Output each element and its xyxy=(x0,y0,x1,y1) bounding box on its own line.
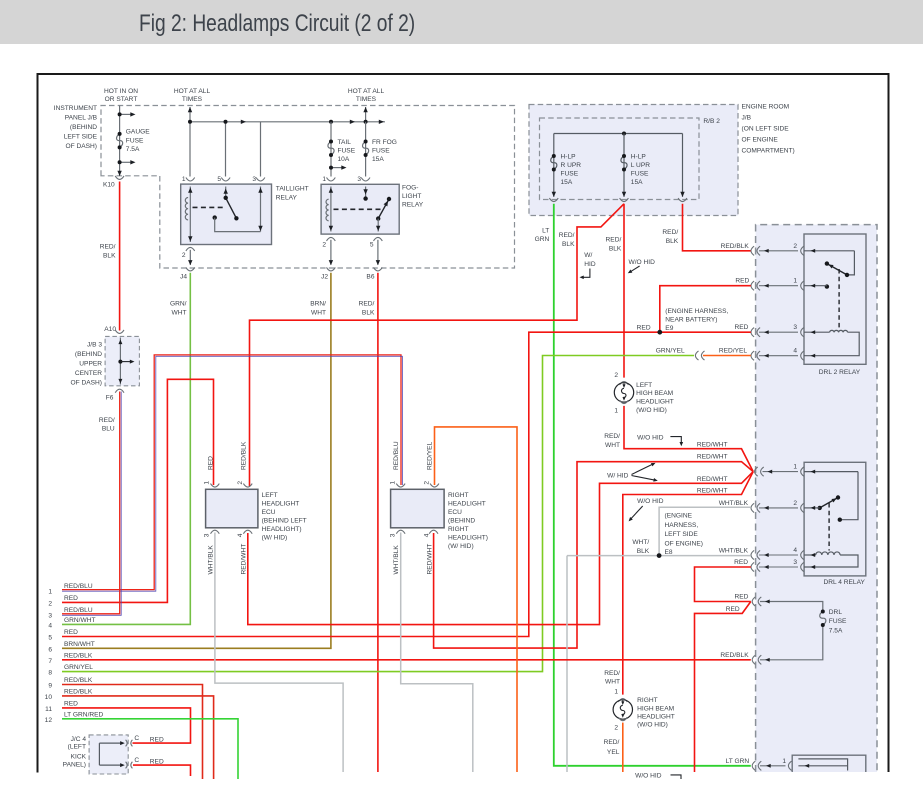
taillight relay pin 2 exit xyxy=(186,247,195,251)
wire WHT/BLK E8 row to DRL4 pin4 xyxy=(567,555,751,557)
svg-text:(W/ HID): (W/ HID) xyxy=(448,543,474,550)
connector RED to DRL fuse xyxy=(752,597,755,606)
left headlight ECU box xyxy=(206,489,258,528)
svg-text:LT: LT xyxy=(542,228,549,235)
svg-text:HEADLIGHT): HEADLIGHT) xyxy=(448,535,488,542)
svg-text:C: C xyxy=(134,757,139,764)
svg-text:LEFT SIDE: LEFT SIDE xyxy=(64,134,98,141)
svg-text:RED/: RED/ xyxy=(99,417,115,424)
svg-text:BLK: BLK xyxy=(103,253,116,260)
svg-text:H-LP: H-LP xyxy=(561,154,577,161)
svg-text:(W/ HID): (W/ HID) xyxy=(262,535,288,542)
svg-text:RED/BLK: RED/BLK xyxy=(241,441,248,470)
svg-text:RED: RED xyxy=(64,595,78,602)
svg-text:RED/BLU: RED/BLU xyxy=(393,441,400,470)
wire RED/BLK W/HID branch xyxy=(250,204,625,486)
wire RED/YEL below right lamp xyxy=(622,723,624,772)
svg-text:10A: 10A xyxy=(338,156,350,163)
fuse FR FOG FUSE 15A xyxy=(363,142,369,156)
DRL4 mech link dashed xyxy=(828,503,830,551)
svg-text:1: 1 xyxy=(322,176,326,183)
svg-text:BLK: BLK xyxy=(637,548,650,555)
lamp LEFT HIGH BEAM HEADLIGHT xyxy=(614,372,674,415)
svg-text:RED: RED xyxy=(64,700,78,707)
svg-text:RED: RED xyxy=(734,594,748,601)
svg-text:BLK: BLK xyxy=(609,246,622,253)
fuse H-LP L UPR FUSE 15A xyxy=(621,134,627,197)
svg-text:BRN/WHT: BRN/WHT xyxy=(64,641,95,648)
svg-text:WHT: WHT xyxy=(311,310,326,317)
svg-text:RED/WHT: RED/WHT xyxy=(697,454,728,461)
svg-text:HOT IN ON: HOT IN ON xyxy=(104,88,138,95)
svg-text:RELAY: RELAY xyxy=(402,202,424,209)
connector GRN/YEL to RED/YEL xyxy=(695,351,698,360)
gauge fuse feed wire xyxy=(120,106,131,177)
instrument panel J/B dashed box xyxy=(101,106,515,269)
svg-text:3: 3 xyxy=(252,176,256,183)
svg-text:RED/WHT: RED/WHT xyxy=(697,487,728,494)
taillight relay pin connectors xyxy=(186,178,195,182)
DRL2 pin 4 connectors xyxy=(751,348,804,361)
wire RED row2 to left ECU pin1 xyxy=(62,379,214,602)
DRL2 pin 1 connectors xyxy=(751,278,827,291)
connector B6 xyxy=(374,267,383,271)
svg-text:RELAY: RELAY xyxy=(276,195,298,202)
bottom relay pin1 xyxy=(760,765,786,767)
taillight relay mech link xyxy=(193,206,225,208)
svg-text:BLK: BLK xyxy=(666,238,679,245)
wire WHT/BLK left ECU pin3 xyxy=(215,533,343,773)
svg-text:2: 2 xyxy=(237,481,244,485)
DRL4 coil pins 4-3 xyxy=(804,552,858,567)
svg-text:KICK: KICK xyxy=(71,754,87,761)
svg-text:W/ HID: W/ HID xyxy=(607,473,628,480)
svg-text:FUSE: FUSE xyxy=(338,148,356,155)
wire RED/YEL right ECU pin2 xyxy=(435,427,518,772)
svg-text:HARNESS,: HARNESS, xyxy=(665,522,699,529)
svg-text:5: 5 xyxy=(217,176,221,183)
wire RED/BLU row1 to right ECU pin1 xyxy=(62,355,402,591)
wire RED/WHT left lamp to DRL4 pin1 line1 xyxy=(624,406,753,472)
svg-text:2: 2 xyxy=(614,372,618,379)
svg-text:FUSE: FUSE xyxy=(126,138,144,145)
svg-text:GRN/WHT: GRN/WHT xyxy=(64,617,96,624)
svg-text:8: 8 xyxy=(48,670,52,677)
diagram border frame xyxy=(38,74,889,773)
svg-text:LEFT SIDE: LEFT SIDE xyxy=(665,531,699,538)
svg-text:1: 1 xyxy=(782,758,786,765)
wire RED DRL2 pin1 to E9 xyxy=(660,286,751,333)
svg-text:WHT: WHT xyxy=(605,679,620,686)
wire LT GRN long vertical xyxy=(554,204,751,766)
svg-text:RED/BLU: RED/BLU xyxy=(64,607,93,614)
svg-text:TAIL: TAIL xyxy=(338,139,352,146)
svg-text:RED: RED xyxy=(726,606,740,613)
svg-text:W/O HID: W/O HID xyxy=(637,498,664,505)
svg-text:3: 3 xyxy=(48,613,52,620)
taillight relay switch xyxy=(225,187,227,198)
fog relay pin3 internal xyxy=(365,187,367,199)
DRL2 switch internal xyxy=(847,251,854,275)
svg-text:RED: RED xyxy=(734,559,748,566)
svg-text:(W/O HID): (W/O HID) xyxy=(636,407,667,414)
svg-text:TIMES: TIMES xyxy=(356,96,377,103)
svg-text:HID: HID xyxy=(584,261,596,268)
svg-text:OR START: OR START xyxy=(105,96,138,103)
svg-text:LEFT: LEFT xyxy=(636,382,652,389)
svg-text:RIGHT: RIGHT xyxy=(448,526,469,533)
svg-text:BLU: BLU xyxy=(102,426,115,433)
wire RED row5 riser to E9 row xyxy=(62,332,751,636)
wire WHT/BLK right ECU pin3 xyxy=(401,533,473,773)
svg-text:J/B: J/B xyxy=(742,115,752,122)
svg-text:HOT AT ALL: HOT AT ALL xyxy=(348,88,385,95)
svg-text:J2: J2 xyxy=(321,274,328,281)
connector J4 xyxy=(186,267,195,271)
svg-text:BLK: BLK xyxy=(362,310,375,317)
J/B 3 internal circuit xyxy=(119,338,121,385)
svg-text:(W/O HID): (W/O HID) xyxy=(637,721,668,728)
svg-text:FOG-: FOG- xyxy=(402,185,418,192)
svg-text:HEADLIGHT: HEADLIGHT xyxy=(262,501,300,508)
svg-text:GRN/YEL: GRN/YEL xyxy=(64,664,93,671)
svg-text:E8: E8 xyxy=(665,549,673,556)
svg-text:OF ENGINE: OF ENGINE xyxy=(742,137,779,144)
svg-text:1: 1 xyxy=(48,588,52,595)
DRL2 mech link dashed xyxy=(838,269,840,330)
svg-text:LEFT: LEFT xyxy=(262,492,278,499)
connector RED/BLK row7 xyxy=(752,655,755,664)
svg-text:BRN/: BRN/ xyxy=(310,301,326,308)
wire RED/YEL to DRL2 pin4 xyxy=(703,355,751,357)
node E9 xyxy=(657,330,662,335)
fog relay pins bottom exits xyxy=(327,237,336,241)
J/C 4 internal bus xyxy=(99,743,121,765)
R/B2 exit connectors xyxy=(549,198,558,202)
svg-text:RED/BLU: RED/BLU xyxy=(64,583,93,590)
svg-text:(ENGINE HARNESS,: (ENGINE HARNESS, xyxy=(665,308,728,315)
svg-text:YEL: YEL xyxy=(607,749,620,756)
gauge fuse symbol GAUGE FUSE 7.5A xyxy=(117,134,123,148)
svg-text:GAUGE: GAUGE xyxy=(126,129,150,136)
DRL 4 relay box xyxy=(804,462,866,576)
svg-text:OF DASH): OF DASH) xyxy=(70,380,102,387)
header bar xyxy=(0,0,923,44)
svg-text:WHT/BLK: WHT/BLK xyxy=(719,548,749,555)
wire RED/BLK W/O HID branch to left high beam xyxy=(623,204,625,386)
svg-text:RED/: RED/ xyxy=(604,739,620,746)
svg-text:2: 2 xyxy=(614,725,618,732)
svg-text:TAILLIGHT: TAILLIGHT xyxy=(276,186,309,193)
svg-text:RED: RED xyxy=(64,629,78,636)
svg-text:(LEFT: (LEFT xyxy=(68,744,86,751)
svg-text:J/B 3: J/B 3 xyxy=(87,342,102,349)
svg-text:1: 1 xyxy=(614,408,618,415)
svg-text:HEADLIGHT: HEADLIGHT xyxy=(636,399,674,406)
svg-text:11: 11 xyxy=(45,706,52,713)
DRL4 pin 2 connectors xyxy=(751,500,820,513)
svg-text:K10: K10 xyxy=(103,182,115,189)
svg-text:1: 1 xyxy=(614,688,618,695)
svg-text:(BEHIND: (BEHIND xyxy=(75,351,102,358)
svg-text:HOT AT ALL: HOT AT ALL xyxy=(174,88,211,95)
fuse TAIL FUSE 10A xyxy=(328,122,342,177)
svg-text:DRL 2 RELAY: DRL 2 RELAY xyxy=(819,369,861,376)
svg-text:FUSE: FUSE xyxy=(561,171,579,178)
svg-text:LIGHT: LIGHT xyxy=(402,193,421,200)
svg-text:NEAR BATTERY): NEAR BATTERY) xyxy=(665,317,717,324)
svg-text:5: 5 xyxy=(370,242,374,249)
svg-text:7: 7 xyxy=(48,658,52,665)
taillight relay coil pin1 xyxy=(185,187,190,243)
wire RED DRL4 pin3 U-link xyxy=(695,567,751,602)
DRL2 pin 2 connectors xyxy=(751,243,854,256)
svg-text:RED: RED xyxy=(734,324,748,331)
svg-text:ECU: ECU xyxy=(262,509,276,516)
svg-text:RED/BLK: RED/BLK xyxy=(721,243,750,250)
wire BRN/WHT J2 riser xyxy=(62,273,331,649)
svg-text:RED/: RED/ xyxy=(606,237,622,244)
wire RED/BLU F6 to row3 xyxy=(62,392,121,616)
svg-text:1: 1 xyxy=(793,464,797,471)
svg-text:A10: A10 xyxy=(104,326,116,333)
svg-text:ECU: ECU xyxy=(448,509,462,516)
taillight relay pin3 internal xyxy=(260,187,262,232)
svg-text:LT GRN: LT GRN xyxy=(726,758,750,765)
wire GRN/YEL row8 riser xyxy=(62,356,694,672)
svg-text:(BEHIND LEFT: (BEHIND LEFT xyxy=(262,518,307,525)
wire RED/WHT line4 to right lamp xyxy=(623,472,753,695)
fog light relay box xyxy=(321,184,399,234)
svg-text:1: 1 xyxy=(390,481,397,485)
R/B 2 dashed box xyxy=(540,118,700,200)
wire RED/WHT line3 from left ECU pin4 xyxy=(248,472,753,625)
svg-text:RED/WHT: RED/WHT xyxy=(241,544,248,575)
svg-text:9: 9 xyxy=(48,683,52,690)
svg-text:15A: 15A xyxy=(372,156,384,163)
svg-text:E9: E9 xyxy=(665,325,673,332)
svg-text:2: 2 xyxy=(423,481,430,485)
svg-text:6: 6 xyxy=(48,646,52,653)
svg-text:RED/: RED/ xyxy=(359,301,375,308)
DRL relays dashed column xyxy=(756,225,877,772)
svg-text:WHT: WHT xyxy=(171,310,186,317)
svg-text:(ENGINE: (ENGINE xyxy=(665,513,693,520)
svg-text:2: 2 xyxy=(182,252,186,259)
R/B2 right feed wire xyxy=(682,134,684,197)
wire RED diagonal branch down xyxy=(695,602,751,773)
wire GRN/WHT J4 riser xyxy=(62,273,190,625)
svg-text:RED/YEL: RED/YEL xyxy=(427,441,434,470)
wire RED J/C4 lower down xyxy=(133,765,191,776)
connector F6 xyxy=(115,389,124,393)
DRL4 pin 1 connectors xyxy=(755,464,858,477)
svg-text:2: 2 xyxy=(793,500,797,507)
svg-text:W/O HID: W/O HID xyxy=(637,434,664,441)
hot-at-all-times rail xyxy=(190,107,385,177)
svg-text:RED/WHT: RED/WHT xyxy=(697,441,728,448)
DRL4 pin 3 connectors xyxy=(751,559,804,572)
svg-text:R/B 2: R/B 2 xyxy=(703,118,720,125)
wire RED/WHT line2 from right ECU pin4 xyxy=(434,462,754,648)
wire RED/BLK row 7 xyxy=(62,659,751,661)
svg-text:RED/: RED/ xyxy=(604,670,620,677)
svg-text:LT GRN/RED: LT GRN/RED xyxy=(64,711,104,718)
svg-text:4: 4 xyxy=(423,533,430,537)
svg-text:TIMES: TIMES xyxy=(182,96,203,103)
fuse DRL FUSE 7.5A xyxy=(760,602,826,660)
DRL4 pin 4 connectors xyxy=(751,547,804,560)
connector K10 xyxy=(115,176,124,180)
svg-text:UPPER: UPPER xyxy=(79,361,102,368)
svg-text:3: 3 xyxy=(793,559,797,566)
J/B 3 dashed box xyxy=(105,336,139,385)
svg-text:HIGH BEAM: HIGH BEAM xyxy=(637,705,674,712)
wire RED/BLK K10 to A10 xyxy=(119,182,121,331)
svg-text:OF DASH): OF DASH) xyxy=(65,143,97,150)
svg-text:7.5A: 7.5A xyxy=(126,146,140,153)
J/C4 connector C upper xyxy=(126,740,133,747)
fog relay mech link xyxy=(334,208,382,210)
svg-text:B6: B6 xyxy=(366,274,374,281)
svg-text:GRN/YEL: GRN/YEL xyxy=(656,348,685,355)
svg-text:OF ENGINE): OF ENGINE) xyxy=(665,540,703,547)
svg-text:W/: W/ xyxy=(584,252,592,259)
svg-text:3: 3 xyxy=(390,533,397,537)
wire WHT/BLK DRL4 pin2 xyxy=(659,507,751,555)
svg-text:PANEL): PANEL) xyxy=(63,762,86,769)
DRL4 switch internal xyxy=(840,472,858,520)
svg-text:Fig 2: Headlamps Circuit (2 of: Fig 2: Headlamps Circuit (2 of 2) xyxy=(139,9,415,37)
svg-text:2: 2 xyxy=(322,242,326,249)
svg-text:RED/YEL: RED/YEL xyxy=(719,348,748,355)
wire RED/BLK B6 long vertical xyxy=(377,273,379,772)
svg-text:HEADLIGHT): HEADLIGHT) xyxy=(262,526,302,533)
svg-text:RED/: RED/ xyxy=(662,229,678,236)
J/C 4 dashed box xyxy=(89,735,128,774)
svg-text:F6: F6 xyxy=(106,395,114,402)
svg-text:H-LP: H-LP xyxy=(631,154,647,161)
svg-text:FUSE: FUSE xyxy=(829,618,847,625)
svg-text:CENTER: CENTER xyxy=(75,370,102,377)
svg-text:RED/: RED/ xyxy=(100,244,116,251)
taillight relay box xyxy=(181,184,272,244)
svg-text:3: 3 xyxy=(204,533,211,537)
DRL2 coil pins 3-4 xyxy=(804,330,859,355)
svg-text:RED/BLK: RED/BLK xyxy=(64,688,93,695)
svg-text:2: 2 xyxy=(793,243,797,250)
svg-text:RED/WHT: RED/WHT xyxy=(697,476,728,483)
svg-text:RED: RED xyxy=(637,325,651,332)
svg-text:(ON LEFT SIDE: (ON LEFT SIDE xyxy=(742,126,790,133)
connector J2 xyxy=(327,267,336,271)
svg-text:FUSE: FUSE xyxy=(631,171,649,178)
svg-text:J/C 4: J/C 4 xyxy=(71,736,87,743)
svg-text:BLK: BLK xyxy=(562,241,575,248)
svg-text:RIGHT: RIGHT xyxy=(637,697,658,704)
svg-text:PANEL J/B: PANEL J/B xyxy=(65,115,98,122)
svg-text:WHT: WHT xyxy=(605,442,620,449)
svg-text:HIGH BEAM: HIGH BEAM xyxy=(636,390,673,397)
svg-text:4: 4 xyxy=(48,622,52,629)
svg-text:DRL 4 RELAY: DRL 4 RELAY xyxy=(824,579,866,586)
svg-text:RIGHT: RIGHT xyxy=(448,492,469,499)
svg-text:R UPR: R UPR xyxy=(561,162,582,169)
svg-text:RED/: RED/ xyxy=(604,433,620,440)
svg-text:INSTRUMENT: INSTRUMENT xyxy=(54,105,97,112)
svg-text:W/O HID: W/O HID xyxy=(629,259,656,266)
svg-text:RED/BLK: RED/BLK xyxy=(64,652,93,659)
fog relay pin connectors top xyxy=(327,178,336,182)
fog relay switch blade xyxy=(378,199,389,219)
bottom relay box (cut off) xyxy=(792,755,866,772)
svg-text:7.5A: 7.5A xyxy=(829,628,843,635)
svg-text:1: 1 xyxy=(204,481,211,485)
svg-text:HEADLIGHT: HEADLIGHT xyxy=(448,501,486,508)
svg-text:(BEHIND: (BEHIND xyxy=(448,518,475,525)
svg-text:5: 5 xyxy=(48,635,52,642)
svg-text:RED: RED xyxy=(735,278,749,285)
svg-text:15A: 15A xyxy=(631,179,643,186)
svg-text:COMPARTMENT): COMPARTMENT) xyxy=(742,148,795,155)
svg-text:RED/BLK: RED/BLK xyxy=(720,652,749,659)
svg-text:L UPR: L UPR xyxy=(631,162,650,169)
svg-text:J4: J4 xyxy=(180,274,187,281)
DRL 2 relay box xyxy=(804,234,866,364)
svg-text:C: C xyxy=(134,735,139,742)
svg-text:ENGINE ROOM: ENGINE ROOM xyxy=(742,104,790,111)
fog relay coil pin1 xyxy=(326,187,331,232)
lamp RIGHT HIGH BEAM HEADLIGHT xyxy=(604,670,675,732)
svg-text:3: 3 xyxy=(357,176,361,183)
svg-text:FR FOG: FR FOG xyxy=(372,139,397,146)
svg-text:1: 1 xyxy=(793,278,797,285)
J/C4 connector C lower xyxy=(126,762,133,769)
svg-text:2: 2 xyxy=(48,600,52,607)
svg-text:GRN/: GRN/ xyxy=(170,301,187,308)
svg-text:WHT/: WHT/ xyxy=(632,539,649,546)
svg-text:3: 3 xyxy=(793,324,797,331)
engine room J/B dashed box xyxy=(529,105,738,216)
svg-text:10: 10 xyxy=(45,694,53,701)
svg-text:WHT/BLK: WHT/BLK xyxy=(719,500,749,507)
svg-text:FUSE: FUSE xyxy=(372,148,390,155)
fog relay pin5 internal xyxy=(377,219,379,232)
svg-text:(BEHIND: (BEHIND xyxy=(70,124,97,131)
svg-text:15A: 15A xyxy=(561,179,573,186)
svg-text:WHT/BLK: WHT/BLK xyxy=(393,545,400,575)
svg-text:WHT/BLK: WHT/BLK xyxy=(208,545,215,575)
svg-text:GRN: GRN xyxy=(535,236,550,243)
taillight relay contact wire to pin 3 xyxy=(215,218,261,232)
svg-text:4: 4 xyxy=(793,348,797,355)
right headlight ECU box xyxy=(391,489,445,528)
svg-text:W/O HID: W/O HID xyxy=(635,773,662,780)
svg-text:DRL: DRL xyxy=(829,609,843,616)
svg-text:4: 4 xyxy=(793,547,797,554)
svg-text:4: 4 xyxy=(237,533,244,537)
wire RED/BLK to DRL2 pin 2 xyxy=(683,204,751,251)
R/B2 internal bus xyxy=(554,133,683,135)
svg-text:12: 12 xyxy=(45,717,53,724)
fuse H-LP R UPR FUSE 15A xyxy=(551,134,557,197)
svg-text:RED: RED xyxy=(150,737,164,744)
svg-text:HEADLIGHT: HEADLIGHT xyxy=(637,713,675,720)
svg-text:RED/: RED/ xyxy=(559,232,575,239)
svg-text:RED/WHT: RED/WHT xyxy=(427,544,434,575)
svg-text:RED/BLK: RED/BLK xyxy=(64,677,93,684)
svg-text:1: 1 xyxy=(182,176,186,183)
